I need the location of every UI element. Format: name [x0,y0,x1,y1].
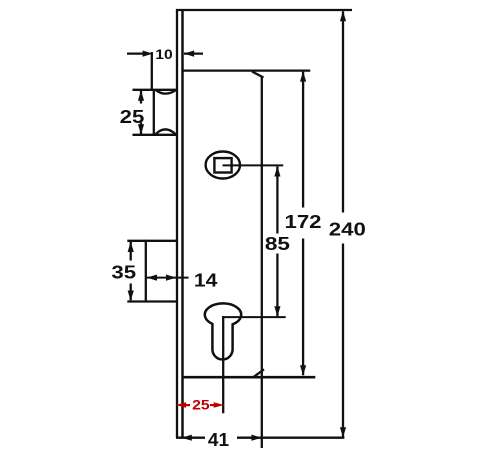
red dim 25 left arrowhead [176,402,187,407]
red dim 25 right arrowhead [214,402,225,407]
dim 172 lower stem [302,239,304,376]
dim 35 down arrowhead [128,291,134,301]
faceplate top / 240 top extension line [176,9,352,11]
dim 10 left arrowhead [143,51,153,57]
dim 41 line right segment / 240 bottom extension [237,437,344,439]
spindle hole circle [206,152,240,179]
svg-text:10: 10 [155,47,172,62]
dim 35 top arrow stem [130,242,132,261]
svg-text:85: 85 [265,234,290,255]
lock case right edge [261,76,263,448]
svg-text:14: 14 [194,271,217,292]
dim 172 down arrowhead [300,365,306,375]
dim 240 down arrowhead [340,427,346,437]
dim 10 extension line [151,52,153,90]
dim 35 up arrowhead [128,242,134,252]
spindle square hole [214,158,231,172]
latch face top arc [155,90,175,94]
latch bolt top edge + 25 extension [133,89,177,91]
dim 172 upper stem [302,72,304,208]
cylinder horizontal center line [223,316,286,318]
latch face bottom arc [155,129,175,134]
deadbolt bottom edge + 35 extension [127,300,176,302]
red dim 25 left tail [186,404,191,406]
red dim 25 right tail [210,404,215,406]
dim 85 down arrowhead [274,306,280,316]
svg-text:35: 35 [111,263,136,283]
svg-text:25: 25 [120,108,145,128]
dim 41 right arrowhead [251,435,261,441]
lock case top edge [182,69,310,71]
dim 41 left arrowhead [182,435,192,441]
dim 10 right tail line [184,52,203,54]
dim 240 up arrowhead [340,11,346,21]
dim 41 line left segment [176,437,205,439]
dim 240 upper stem [342,11,344,212]
dim 10 left tail line [127,52,146,54]
lock case bottom edge [182,376,315,379]
svg-text:41: 41 [208,429,229,450]
dim 85 lower stem [276,254,278,317]
dim 85 upper stem [276,167,278,234]
dim 85 up arrowhead [274,166,280,176]
dim 172 up arrowhead [300,71,306,81]
dim 25 up arrowhead [138,91,144,101]
euro cylinder keyhole [205,303,241,359]
deadbolt left edge [145,240,147,303]
dim 14 right arrowhead [166,275,176,281]
case bottom-right jog [253,369,265,378]
dim 25 top arrow stem [140,91,142,104]
latch bolt left edge [153,89,155,136]
deadbolt top edge + 35 extension [127,240,176,242]
case top-right jog [252,72,264,78]
latch bolt bottom edge + 25 extension [133,134,177,136]
cylinder vertical center line [222,316,224,413]
dim 25 bottom arrow stem [140,123,142,135]
faceplate right edge [181,9,184,438]
dim 10 right arrowhead [184,51,194,57]
dim 35 bottom arrow stem [130,284,132,301]
dim 25 down arrowhead [138,124,144,134]
dim 240 lower stem [342,244,344,438]
svg-text:25: 25 [192,399,210,414]
svg-text:240: 240 [329,220,366,240]
dim 14 line [147,277,189,279]
svg-text:172: 172 [284,213,321,233]
spindle center leader line [223,164,284,166]
faceplate left edge [176,9,178,438]
dim 14 left arrowhead [147,275,157,281]
